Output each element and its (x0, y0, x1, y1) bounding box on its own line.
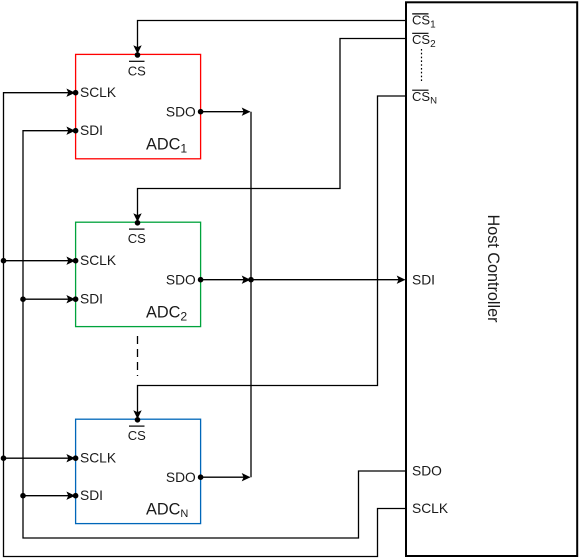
node ADC2 SDI dot (73, 296, 79, 302)
node CS1 dot (135, 52, 141, 58)
svg-text:Host Controller: Host Controller (484, 215, 502, 324)
ADCN pin CS (128, 426, 146, 443)
ellipsis dashed wire between ADC2 and ADCN (137, 336, 139, 376)
svg-text:CS: CS (128, 428, 146, 443)
wire CSN host to ADCN (138, 96, 407, 418)
ADC2 box (76, 222, 201, 326)
host ellipsis dotted line (421, 49, 423, 81)
svg-text:ADC2: ADC2 (146, 304, 187, 324)
wire SCLK branch to ADC2 (4, 260, 75, 262)
node SCLK bus junction ADCN (1, 455, 7, 461)
wire ADC1 SDO to bus (201, 111, 250, 113)
svg-text:SDO: SDO (166, 104, 196, 119)
svg-text:CS: CS (128, 63, 146, 78)
svg-text:SCLK: SCLK (80, 85, 117, 100)
svg-text:SDO: SDO (412, 464, 442, 479)
svg-text:CS2: CS2 (412, 32, 436, 50)
wire ADCN SDO to bus (201, 476, 250, 478)
svg-text:SDO: SDO (166, 470, 196, 485)
svg-text:ADC1: ADC1 (146, 136, 187, 156)
node SDI bus junction ADC2 (20, 296, 26, 302)
svg-text:SDI: SDI (412, 272, 435, 287)
ADC2 pin CS (128, 229, 146, 246)
wire SCLK branch to ADCN (4, 457, 75, 459)
svg-text:SDI: SDI (80, 123, 103, 138)
ADCN box (76, 419, 201, 523)
svg-text:SDI: SDI (80, 292, 103, 307)
svg-text:CSN: CSN (412, 89, 437, 107)
node CS2 dot (135, 220, 141, 226)
host pin CSN (412, 89, 437, 107)
wire SDO bus to host SDI (251, 279, 405, 281)
host pin CS1 (412, 13, 436, 31)
svg-text:CS: CS (128, 231, 146, 246)
svg-text:SDI: SDI (80, 488, 103, 503)
node ADC2 SCLK dot (73, 258, 79, 264)
wire SDO from host to SDI bus (23, 131, 406, 538)
svg-text:CS1: CS1 (412, 13, 436, 31)
host controller box (406, 2, 577, 556)
node ADCN SDO dot (198, 474, 204, 480)
wire SDO bus vertical (250, 112, 252, 478)
node ADC2 SDO dot (198, 277, 204, 283)
svg-text:SCLK: SCLK (412, 501, 449, 516)
wire SDI branch to ADCN (23, 495, 75, 497)
node ADC1 SCLK dot (73, 90, 79, 96)
node ADC1 SDO dot (198, 109, 204, 115)
node CSN dot (135, 417, 141, 423)
svg-text:ADCN: ADCN (146, 501, 188, 521)
node SDI bus junction ADCN (20, 493, 26, 499)
ADC1 pin CS (128, 61, 146, 78)
svg-text:SCLK: SCLK (80, 451, 117, 466)
svg-text:SCLK: SCLK (80, 253, 117, 268)
node SDO bus junction (248, 277, 254, 283)
svg-text:SDO: SDO (166, 272, 196, 287)
wire SDI branch to ADC2 (23, 298, 75, 300)
wire CS2 host to ADC2 (138, 39, 407, 222)
node ADCN SCLK dot (73, 455, 79, 461)
node ADC1 SDI dot (73, 128, 79, 134)
wire SCLK bus from host (4, 93, 407, 557)
wire ADC2 SDO to bus (201, 279, 250, 281)
ADC1 box (76, 54, 201, 158)
node ADCN SDI dot (73, 493, 79, 499)
wire CS1 host to ADC1 (138, 21, 407, 54)
node SCLK bus junction ADC2 (1, 258, 7, 264)
host pin CS2 (412, 32, 436, 50)
